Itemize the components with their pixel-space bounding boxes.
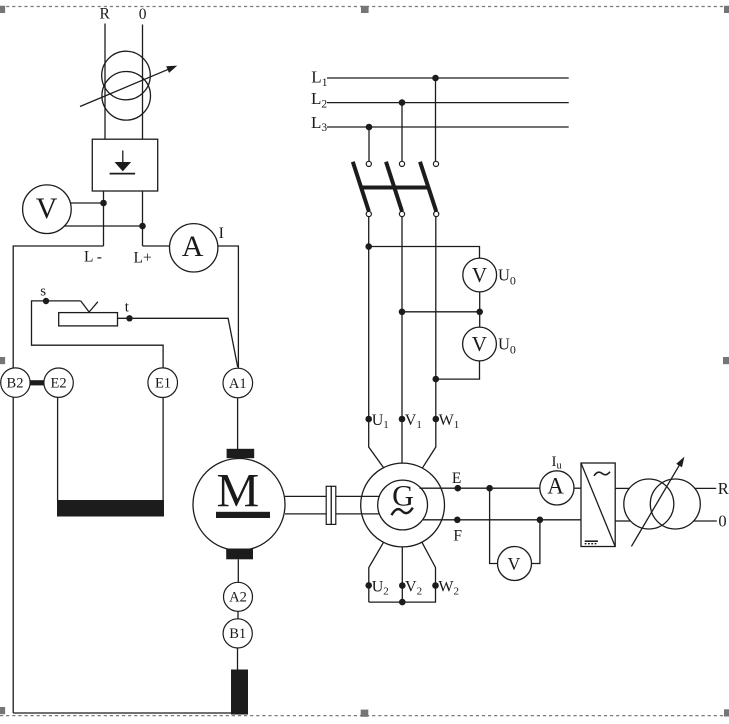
wire R phase down to rectifier — [104, 24, 106, 140]
terminal dot U2 — [365, 582, 372, 589]
junction dot phase 1 — [365, 243, 372, 250]
junction dot E to voltmeter — [486, 485, 493, 492]
wire 0 neutral down to rectifier — [142, 25, 144, 140]
power line L2 — [327, 102, 569, 104]
wire t to terminal A1 — [118, 318, 238, 367]
svg-text:F: F — [453, 527, 462, 544]
switch bottom contact 1 — [366, 211, 371, 216]
wire converter to variac (top) — [615, 487, 629, 489]
terminal dot E — [455, 485, 462, 492]
phase wire 1 from switch to generator U1 — [369, 217, 384, 469]
variac T1 adjustment arrow — [80, 66, 177, 107]
voltmeter U0 #1 — [463, 258, 497, 292]
wire rectifier minus output down — [103, 191, 105, 246]
svg-text:B2: B2 — [7, 376, 24, 392]
svg-text:E2: E2 — [51, 376, 67, 392]
terminal dot V1 — [399, 416, 406, 423]
terminal dot F — [454, 517, 461, 524]
star point junction dot — [399, 599, 406, 606]
switch top contact 2 — [399, 161, 404, 166]
svg-text:0: 0 — [718, 511, 726, 530]
svg-text:0: 0 — [139, 6, 147, 23]
wire E2 down to field winding — [57, 397, 59, 500]
variac T1 (upper circle) — [102, 51, 151, 100]
generator tilde — [392, 508, 413, 516]
switch bottom contact 3 — [434, 211, 439, 216]
terminal E2 — [44, 368, 73, 397]
terminal dot W1 — [433, 416, 440, 423]
wire L2 down to switch pole 2 — [401, 103, 403, 162]
svg-text:L -: L - — [84, 248, 102, 265]
wire variac to 0 — [694, 520, 717, 522]
terminal B1 — [223, 619, 252, 648]
motor-generator shaft lower line — [285, 513, 379, 515]
wire voltmeter U0 #2 to phase 3 — [436, 361, 480, 379]
wire L3 down to switch pole 1 — [368, 127, 370, 161]
voltmeter V (field) — [498, 547, 532, 581]
svg-text:V: V — [508, 554, 521, 574]
terminal dot W2 — [432, 582, 439, 589]
motor-generator shaft upper line — [285, 495, 379, 497]
converter AC tilde — [594, 472, 610, 476]
svg-text:B1: B1 — [229, 626, 246, 642]
generator bottom lead to W2 — [422, 542, 436, 602]
junction dot on L+ wire — [139, 223, 146, 230]
terminal E1 — [148, 368, 178, 398]
wire s to E1 (loop) — [32, 301, 164, 368]
svg-text:A: A — [547, 474, 564, 499]
switch blade 3 — [420, 162, 436, 212]
converter diagonal — [581, 463, 615, 547]
terminal dot t — [126, 315, 132, 321]
terminal B2 — [1, 368, 30, 397]
wire E junction down to voltmeter — [490, 488, 498, 563]
junction dot phase 3 — [433, 376, 440, 383]
wire voltmeter to L- — [71, 202, 104, 204]
wire voltmeter U0 #1 down — [479, 292, 481, 312]
shaft coupling right disc — [331, 486, 336, 524]
phase wire 3 from switch to generator W1 — [423, 217, 436, 468]
wire along bottom to starting resistor — [13, 712, 231, 714]
ammeter Iu — [540, 471, 574, 505]
svg-text:V: V — [36, 192, 58, 225]
generator G inner circle — [378, 480, 428, 530]
wire phase 2 junction row — [402, 311, 480, 313]
variac T1 (lower circle) — [102, 72, 151, 121]
svg-text:G: G — [392, 479, 414, 512]
svg-text:A1: A1 — [229, 376, 247, 392]
wire B2 down left side — [12, 397, 14, 713]
svg-text:E: E — [452, 470, 461, 487]
motor top brush — [227, 449, 255, 458]
svg-text:V: V — [472, 332, 487, 356]
wire L- elbow down left side to B2 — [13, 246, 103, 368]
generator G outer body — [361, 463, 445, 547]
rectifier box (diode bridge) — [92, 139, 157, 191]
switch top contact 1 — [366, 161, 371, 166]
phase wire 2 from switch to generator V1 — [401, 217, 403, 464]
svg-text:E1: E1 — [155, 376, 171, 392]
starting resistor block — [231, 670, 248, 715]
svg-text:A: A — [182, 230, 204, 263]
svg-text:s: s — [40, 283, 46, 299]
wire variac to R — [694, 487, 716, 489]
svg-text:R: R — [100, 5, 111, 22]
voltmeter U0 #2 — [463, 327, 497, 361]
output variac left circle — [624, 479, 674, 529]
wire to voltmeter U0 #2 — [479, 312, 481, 327]
svg-text:R: R — [718, 479, 729, 498]
switch top contact 3 — [433, 161, 438, 166]
ammeter A (armature current) — [170, 224, 218, 272]
wire ammeter to converter — [574, 487, 581, 489]
junction dot phase 2 — [399, 309, 406, 316]
wire ammeter to terminal A1 — [218, 246, 239, 368]
terminal dot s — [43, 298, 49, 304]
switch blade 1 — [353, 162, 369, 212]
terminal dot U1 — [365, 416, 372, 423]
svg-text:A2: A2 — [229, 590, 247, 606]
rheostat wiper — [81, 301, 98, 312]
generator bottom lead to U2 — [369, 542, 384, 602]
wire junction to voltmeter U0 #1 — [369, 247, 480, 259]
motor bottom brush — [226, 549, 253, 560]
wire converter to variac (bottom) — [615, 520, 630, 522]
power line L1 — [327, 77, 569, 79]
star point wire — [369, 601, 436, 603]
wire voltmeter to L+ — [65, 225, 143, 227]
svg-text:L+: L+ — [134, 249, 152, 266]
shaft coupling left disc — [326, 486, 331, 524]
wire motor to A2 — [237, 559, 239, 582]
wire A1 down to motor brush — [237, 398, 239, 449]
junction dot L1 — [432, 75, 439, 82]
diode symbol inside rectifier — [110, 151, 136, 174]
svg-text:M: M — [216, 465, 259, 518]
wire A2 to B1 — [237, 611, 239, 619]
converter box — [581, 463, 615, 547]
field wire E from generator — [420, 487, 540, 489]
generator bottom lead to V2 — [401, 547, 403, 602]
svg-text:V: V — [472, 263, 487, 287]
power line L3 — [327, 126, 569, 128]
voltmeter V (armature voltage) — [23, 185, 72, 234]
wire L+ junction to ammeter — [143, 245, 170, 247]
junction dot L3 — [366, 124, 373, 131]
wire rectifier plus output down — [142, 191, 144, 246]
converter DC marks — [585, 541, 598, 544]
wire B1 down to starting resistor — [237, 648, 239, 670]
wire L1 down to switch pole 3 — [435, 78, 437, 161]
switch coupling bar — [360, 186, 428, 190]
switch bottom contact 2 — [399, 211, 404, 216]
motor M underline — [216, 512, 270, 518]
field winding bar — [57, 500, 164, 517]
junction dot on L- wire — [100, 200, 107, 207]
wire s to rheostat wiper — [46, 300, 81, 302]
junction dot below voltmeter U0 #1 — [476, 309, 483, 316]
wire E1 down to field winding — [162, 397, 164, 500]
terminal A2 — [224, 582, 253, 611]
terminal A1 — [223, 368, 253, 398]
output variac right circle — [650, 479, 700, 529]
junction dot F to voltmeter — [537, 517, 544, 524]
wire F junction down to voltmeter — [532, 520, 540, 564]
field wire F from generator — [423, 519, 582, 521]
terminal dot V2 — [399, 582, 406, 589]
switch blade 2 — [386, 162, 402, 212]
link bar B2-E2 — [30, 380, 44, 385]
svg-text:I: I — [219, 225, 224, 242]
output variac arrow — [631, 457, 684, 547]
junction dot L2 — [399, 99, 406, 106]
rheostat body — [59, 313, 118, 326]
motor M body — [193, 459, 285, 551]
